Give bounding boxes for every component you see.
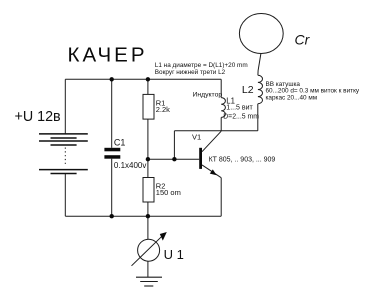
ground bbox=[136, 277, 162, 286]
wire L2 feedback vertical link bbox=[173, 131, 175, 159]
node top rail / R1 bbox=[146, 77, 150, 81]
wire C1 top lead bbox=[111, 79, 113, 148]
wire L1 bottom lead bbox=[220, 117, 222, 130]
node base / L2 link bbox=[172, 157, 176, 161]
wire U1 bottom lead bbox=[147, 261, 149, 277]
svg-text:U 1: U 1 bbox=[164, 247, 184, 262]
svg-text:+U 12в: +U 12в bbox=[15, 109, 61, 125]
wire R1 to base node bbox=[147, 119, 149, 159]
wire battery minus lead bbox=[64, 174, 66, 216]
wire L2 bottom lead bbox=[257, 104, 259, 131]
toroid Cr bbox=[239, 14, 283, 54]
transistor V1 bbox=[199, 131, 221, 178]
svg-text:C1: C1 bbox=[114, 137, 126, 147]
wire C1 bottom lead bbox=[111, 159, 113, 217]
svg-text:Cr: Cr bbox=[295, 32, 311, 48]
inductor L2 bbox=[258, 75, 263, 103]
svg-text:D=2...5 mm: D=2...5 mm bbox=[223, 113, 259, 120]
wire left vertical (battery plus lead) bbox=[64, 79, 66, 134]
wire R2 top lead bbox=[147, 159, 149, 177]
wire emitter vertical bbox=[220, 178, 222, 217]
wire base rail bbox=[148, 158, 199, 160]
wire L2 feedback horizontal bbox=[174, 130, 257, 132]
svg-text:0.1x400v: 0.1x400v bbox=[114, 161, 146, 170]
battery GB1 bbox=[39, 134, 88, 174]
wire L1 top lead bbox=[220, 79, 222, 97]
node base / R1 R2 bbox=[146, 157, 150, 161]
wire R2 bottom lead bbox=[147, 202, 149, 216]
capacitor C1 bbox=[104, 148, 120, 159]
svg-text:L2: L2 bbox=[242, 84, 254, 96]
svg-text:КТ 805, .. 903, ... 909: КТ 805, .. 903, ... 909 bbox=[209, 157, 276, 164]
node top rail / C1 bbox=[110, 77, 114, 81]
svg-text:1...5 вит: 1...5 вит bbox=[226, 104, 253, 111]
svg-text:каркас 20...40 мм: каркас 20...40 мм bbox=[266, 95, 318, 102]
svg-text:Вокруг нижней трети L2: Вокруг нижней трети L2 bbox=[155, 68, 226, 76]
wire toroid to L2 bbox=[258, 54, 261, 76]
resistor R1 bbox=[143, 94, 154, 119]
resistor R2 bbox=[143, 178, 154, 203]
wire R1 top lead bbox=[147, 79, 149, 94]
node bottom rail / R2 U1 bbox=[146, 214, 150, 218]
svg-text:150 om: 150 om bbox=[156, 188, 181, 197]
wire top rail bbox=[65, 78, 221, 80]
wire bottom rail bbox=[65, 215, 221, 217]
svg-text:2.2k: 2.2k bbox=[156, 105, 170, 114]
svg-text:КАЧЕР: КАЧЕР bbox=[68, 44, 148, 67]
meter U1 bbox=[132, 232, 167, 266]
svg-text:V1: V1 bbox=[192, 133, 201, 142]
inductor L1 bbox=[221, 98, 225, 118]
svg-text:Индуктор: Индуктор bbox=[193, 91, 223, 98]
node bottom rail / C1 bbox=[110, 214, 114, 218]
wire U1 top lead bbox=[147, 216, 149, 239]
